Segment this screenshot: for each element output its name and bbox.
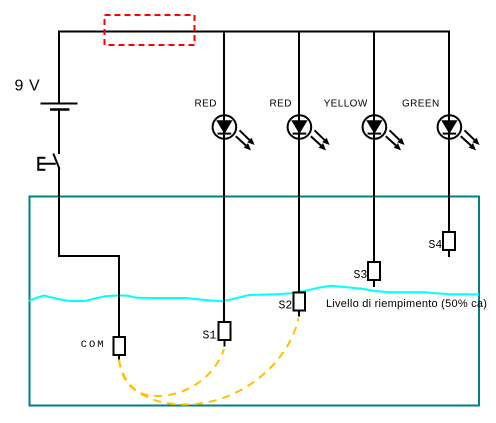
water level wave: [29, 286, 479, 302]
svg-text:RED: RED: [270, 99, 292, 110]
electrode COM box: [114, 337, 126, 355]
LED D3: [363, 115, 405, 150]
LED D2: [288, 115, 330, 150]
wire corner down to COM electrode: [118, 255, 120, 337]
wire S3 stub: [373, 280, 375, 287]
svg-text:Livello di riempimento (50% ca: Livello di riempimento (50% ca): [326, 298, 487, 310]
wire switch to corner: [59, 169, 119, 257]
svg-text:S2: S2: [279, 300, 293, 313]
electrode S3 box: [368, 262, 380, 280]
LED D1: [213, 115, 255, 150]
highlight box red dashed: [105, 15, 195, 45]
svg-text:S4: S4: [429, 239, 443, 252]
wire top horizontal bus: [58, 31, 450, 33]
svg-text:S3: S3: [354, 269, 368, 282]
LED branch 4 wire: [448, 31, 450, 233]
dashed link COM to S1: [119, 349, 224, 396]
LED branch 1 wire: [223, 31, 225, 323]
wire left vertical battery feed: [58, 31, 60, 104]
svg-text:YELLOW: YELLOW: [324, 99, 368, 110]
LED branch 2 wire: [298, 31, 300, 293]
dashed link COM to S2: [119, 318, 299, 405]
switch S pushbutton: [37, 154, 59, 171]
battery B1: [41, 104, 78, 110]
svg-text:COM: COM: [81, 339, 106, 351]
wire COM stub: [118, 355, 120, 361]
wire S4 stub: [448, 250, 450, 257]
wire battery to switch: [58, 110, 60, 155]
svg-text:GREEN: GREEN: [402, 99, 440, 110]
LED branch 3 wire: [373, 31, 375, 263]
electrode S1 box: [219, 322, 231, 340]
wire S1 stub: [224, 340, 226, 347]
tank outline: [30, 197, 480, 406]
svg-text:S1: S1: [203, 330, 217, 343]
electrode S2 box: [294, 293, 306, 311]
svg-text:RED: RED: [195, 99, 217, 110]
wire S2 stub: [298, 311, 300, 317]
LED D4: [438, 115, 480, 150]
svg-text:9 V: 9 V: [15, 78, 41, 95]
electrode S4 box: [443, 232, 455, 250]
